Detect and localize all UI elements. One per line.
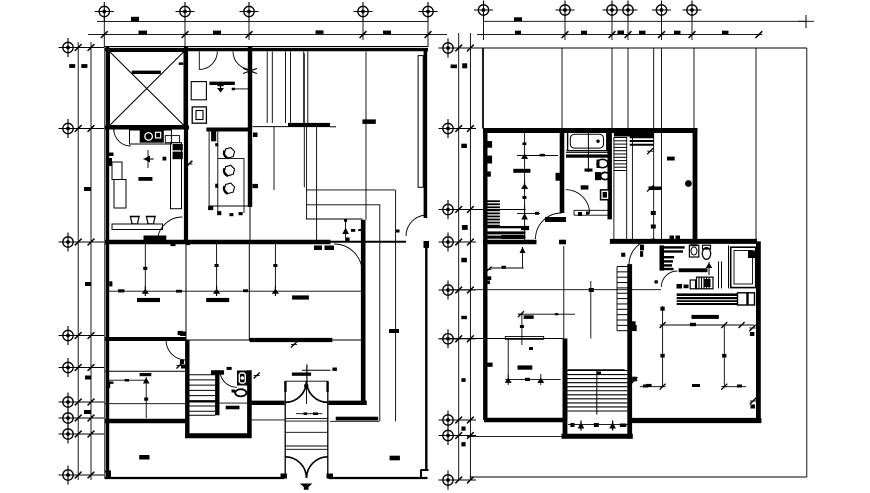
kitchen range white box	[156, 132, 161, 138]
hall line y403 left segment	[105, 403, 187, 405]
staircase dark tread line	[190, 400, 216, 402]
dimension text blobs left column	[69, 64, 91, 414]
living window column	[418, 56, 423, 188]
dining wall blob	[253, 184, 259, 188]
corridor dash	[667, 157, 675, 161]
left axis circle	[59, 326, 78, 345]
storage room label bar	[132, 71, 161, 74]
terrace grid verticals upper	[484, 48, 757, 241]
wall horizontal y129 left of bath door	[105, 126, 190, 130]
porch label bar above	[292, 373, 311, 376]
closet bottom thin line	[253, 126, 288, 128]
bath sink pedestal	[597, 159, 609, 168]
bath door arc right	[233, 52, 251, 70]
bath faucet cross	[217, 83, 224, 93]
bedroom2 dim cross center	[142, 286, 149, 296]
bath door leaf left	[198, 52, 200, 70]
bathtub drain dot	[596, 140, 599, 143]
wall mark east of bathroom2	[754, 252, 761, 259]
stairwell side lines	[614, 130, 633, 241]
axis tick verticals top right plan	[484, 16, 763, 41]
wall vertical x250	[248, 47, 252, 207]
left axis circle	[59, 409, 78, 428]
bath bottom double line	[574, 210, 611, 215]
bedroom1 dim marks on vertical	[523, 142, 527, 199]
bedroomSE dim vertical 1	[660, 306, 664, 387]
stair hall tick right	[632, 377, 701, 387]
axis ticks left column	[60, 44, 104, 478]
bedroom2 dim dash right	[176, 290, 182, 293]
porch dim cross above	[302, 365, 331, 382]
stair flight2 label marks	[630, 321, 635, 330]
dimension line middle-2	[469, 33, 471, 480]
bath small square and line	[232, 88, 250, 91]
dimension line middle-1	[458, 33, 460, 480]
middle axis circle	[439, 329, 458, 348]
left plan outer wall top thin line	[105, 46, 429, 48]
corridor wall x653.7	[653, 131, 655, 241]
refrigerator box 1	[112, 162, 122, 180]
main stairs top mark	[597, 372, 602, 376]
porch bottom corner foot right	[327, 474, 334, 479]
porch steps	[285, 419, 328, 450]
corridor dot	[685, 180, 692, 187]
hall label bar 3	[292, 295, 309, 299]
bathroom2 shower box	[731, 247, 756, 287]
grid vertical x563.8 middle	[563, 246, 565, 339]
bedroom SW east wall x565	[563, 339, 568, 421]
washing machine box	[192, 107, 206, 123]
bedroom1 dim cross y186	[521, 181, 528, 191]
hall dim vertical x591	[589, 281, 594, 339]
porch left jamb	[284, 381, 286, 478]
hall wall cross marks	[486, 267, 492, 285]
dining stool 2	[224, 165, 234, 175]
terrace vertical x482 left	[481, 48, 483, 129]
bathroom2 partition lines right of toilet	[719, 246, 729, 289]
kitchen door arc from storage	[114, 129, 131, 146]
bedroom1 wall mark east	[556, 173, 561, 181]
bedroom3 dim square on line	[215, 264, 219, 267]
left axis circle	[59, 119, 78, 138]
laundry dim horizontal	[109, 379, 146, 382]
porch bottom double door arc right	[307, 457, 328, 478]
porch bottom double door arc left	[285, 457, 306, 478]
living grid vertical x366	[365, 52, 367, 220]
bathroom2 counter bar	[679, 268, 708, 272]
bath niche wall band	[566, 154, 610, 157]
hall dim vertical x521.9	[520, 314, 524, 345]
bedroom1 label bar	[513, 169, 530, 173]
axis 2	[176, 2, 195, 21]
end tick of top dim line right plan	[798, 15, 814, 28]
middle axis circle	[439, 39, 458, 58]
bath dim cross bar	[585, 169, 593, 172]
wall x694 corridor east	[693, 128, 698, 239]
left plan bottom boundary wall	[105, 477, 428, 479]
staircase newel wall	[215, 370, 219, 415]
bathroom2 step closet vertical bar	[660, 245, 665, 270]
door swing mark x	[243, 68, 257, 73]
dining stool shadows	[224, 151, 228, 194]
bedroom1 wall marks west	[487, 141, 492, 177]
kitchen range dark block	[140, 130, 164, 143]
living thick bar center	[362, 119, 375, 124]
wall horizontal y340 thin middle	[186, 339, 250, 341]
bedroom1 top wall label	[501, 235, 523, 239]
dining partition line west	[208, 131, 210, 206]
left plan outer wall left	[105, 47, 108, 479]
kitchen counter right column	[171, 143, 182, 209]
right plan left wall thick	[483, 128, 487, 420]
hall partition x249 lower	[248, 243, 250, 340]
bathroom2 toilet	[702, 245, 710, 259]
hall dim horizontal y314	[518, 311, 575, 319]
entry marker triangle	[300, 484, 313, 490]
vanity hatched counter	[677, 293, 738, 305]
bathtub tile lines	[566, 151, 610, 153]
bedroom2 dim dash left	[118, 289, 124, 292]
dining stool 1	[224, 148, 234, 158]
bedroomSE wall marks west	[632, 325, 637, 381]
bedroom3 dim vertical	[216, 243, 218, 291]
bedroomSE label bar	[692, 315, 719, 319]
kitchen dim dash	[163, 157, 167, 161]
stair door arc y241	[629, 239, 655, 265]
axis tick verticals top left plan	[101, 17, 432, 47]
hall thin line y371	[105, 370, 187, 372]
bedroomSE dim horizontal y386	[640, 384, 746, 390]
wall horizontal y340 thin right	[332, 339, 363, 341]
left plan bottom-left corner mark	[105, 471, 112, 478]
bedroom3 tick below wall	[291, 342, 297, 348]
porch top double door arc right	[307, 381, 328, 402]
grid horizontal y290	[450, 289, 661, 291]
bedroomSE wall marks east	[749, 325, 756, 409]
closet wall mark	[253, 133, 258, 138]
stair landing bars top	[614, 133, 654, 137]
refrigerator box 2	[114, 180, 126, 209]
stair flight1 treads	[614, 138, 627, 171]
bathroom2 sink pedestal	[689, 245, 698, 257]
main stairs top line	[568, 369, 625, 371]
wall vertical x363 porch east	[361, 220, 366, 405]
corridor small square	[621, 253, 625, 257]
bedroom SE bottom wall	[628, 418, 761, 423]
corridor dim blobs	[651, 211, 656, 229]
living nested corner lines	[304, 53, 395, 421]
grid axis circles middle column	[439, 39, 458, 490]
kitchen counter top outline	[130, 130, 172, 144]
wall vertical x250 thin lower	[249, 207, 251, 243]
bedroom2 top marks	[170, 243, 190, 246]
middle axis circle	[439, 281, 458, 300]
room line y338.5	[450, 338, 564, 340]
dimension line top-2 left plan	[88, 34, 447, 36]
wall x758 bathroom2 east	[756, 241, 761, 420]
bedroom2 label bar	[137, 298, 160, 302]
left plan outer wall right lower	[425, 247, 427, 471]
west steps treads	[487, 200, 500, 226]
middle axis circle	[439, 233, 458, 252]
kitchen door threshold bar	[144, 236, 167, 241]
left axis circle	[59, 466, 78, 485]
kitchen label bar	[138, 177, 152, 181]
axis 4	[354, 2, 373, 21]
dining counter extension	[165, 136, 179, 143]
storage room box	[110, 52, 185, 126]
bath bidet	[600, 189, 610, 200]
thin line y420 left of porch	[252, 419, 286, 421]
bedroomSW dim horizontal	[505, 374, 561, 385]
dining partition ticks	[215, 143, 218, 188]
stair landing treads upper right	[630, 133, 654, 144]
wall horizontal y242 kitchen-hall thick	[105, 240, 331, 244]
kitchen pot 2	[147, 217, 156, 224]
wall vertical x186 lower thick	[185, 340, 189, 439]
laundry dim vertical	[143, 377, 150, 418]
bedroom2 wall mark	[109, 281, 112, 286]
corridor door arc to bathroom2	[661, 271, 677, 287]
bedroomSW wall mark	[487, 363, 493, 367]
washing machine inner square	[196, 111, 203, 120]
axis F	[683, 1, 702, 20]
living terrace bar	[336, 417, 379, 421]
porch dim dashes	[296, 412, 322, 415]
kitchen dim arrow	[144, 150, 154, 168]
dining bottom marks	[208, 206, 243, 216]
bathtub center grid line	[587, 130, 589, 172]
stair flight2 west line	[616, 267, 618, 331]
bedroom3 square right	[332, 368, 337, 371]
dimension text blobs top left plan	[131, 17, 391, 34]
left plan outer wall top thick	[105, 48, 429, 51]
bedroom1 east wall x562	[560, 128, 565, 213]
wall horizontal y403 left of porch	[252, 401, 285, 405]
wall horizontal y421 hall lower	[105, 419, 187, 423]
terrace line y421	[330, 420, 379, 422]
wall horizontal y435 stairs bottom	[185, 433, 252, 438]
main stairs arrow marks bottom	[570, 421, 626, 431]
dimension line left-1	[77, 42, 79, 480]
wall vertical x249.5 stair east wall	[247, 370, 252, 437]
dimension text blobs middle column	[451, 63, 468, 446]
kitchen pot lids	[130, 216, 156, 218]
bath east wall x610	[608, 128, 612, 219]
wc label bar	[226, 406, 240, 410]
middle axis circle	[439, 411, 458, 430]
hall small square	[655, 280, 658, 283]
storage room small square	[179, 62, 184, 65]
bath door arc left	[199, 52, 217, 70]
porch bottom corner foot left	[281, 474, 288, 479]
yard label bar right	[390, 456, 400, 461]
stair bottom wall right plan	[562, 434, 633, 439]
left plan outer wall right upper	[424, 49, 428, 218]
left axis circle	[59, 38, 78, 57]
main stairs dim line below	[568, 424, 630, 426]
axis E	[652, 1, 671, 20]
dimension line top-2 right plan	[477, 34, 761, 36]
bedroomSE dim horizontal y325	[660, 322, 754, 328]
bedroom1 bottom cross	[517, 205, 540, 220]
wall horizontal y242 medium continuation	[331, 241, 407, 243]
dining bottom line	[209, 205, 249, 207]
right plan top wall thick	[483, 128, 698, 133]
axis A	[474, 1, 493, 20]
wall vertical x186 upper	[184, 47, 188, 243]
axis B	[556, 1, 575, 20]
bath label blob	[581, 185, 589, 189]
wc bowl handle	[232, 390, 237, 396]
wall horizontal y340 hall top thick	[250, 338, 333, 342]
line y436 bottom left	[467, 435, 562, 437]
kitchen bottom counter	[112, 224, 163, 230]
stair flight2 treads	[617, 267, 629, 331]
dining counter east line	[243, 158, 245, 213]
bedroom1 bottom wall y242 west	[483, 240, 537, 245]
wall horizontal y129 right of bath door	[206, 128, 252, 132]
left axis circle	[59, 358, 78, 377]
porch top double door arc left	[285, 381, 306, 402]
wardrobe partition lines	[267, 52, 308, 124]
middle axis circle	[439, 200, 458, 219]
dimension line left-2	[90, 42, 92, 480]
bathroom2 washing machine	[690, 277, 713, 289]
bedroom SW bottom wall	[484, 418, 565, 423]
middle axis circle	[439, 471, 458, 490]
bedroomSW counter top	[505, 337, 543, 340]
main stairs west wall	[563, 370, 568, 439]
axis 3	[240, 2, 259, 21]
terrace outer boundary right plan	[468, 48, 807, 477]
storage room diagonal 2	[110, 52, 185, 126]
staircase treads left plan	[190, 375, 216, 412]
bathtub inner	[570, 134, 603, 148]
bedroom1 dim cross y155	[517, 154, 558, 159]
kitchen door arc to hall	[157, 217, 182, 242]
living dim arrow near porch wall	[342, 219, 361, 242]
axis 5	[419, 2, 438, 21]
corridor tick 1	[647, 148, 653, 154]
stair east newel wall	[627, 264, 632, 439]
wall vertical x186 middle thin	[185, 243, 187, 340]
hall dim dash mid	[243, 289, 248, 292]
left plan bottom-right corner mark	[421, 470, 429, 478]
hall dim vertical 3	[274, 243, 276, 291]
bottom room label bar	[139, 455, 149, 460]
bath counter black bar	[209, 82, 234, 85]
left axis circle	[59, 393, 78, 412]
kitchen wall tick right	[186, 161, 193, 168]
bathroom2 arrow mark	[706, 262, 712, 275]
axis ticks middle column	[440, 45, 526, 484]
bedroom1 door arc	[536, 213, 562, 239]
bedroom1 dim vertical	[524, 131, 526, 242]
closet bottom wall bar	[288, 123, 330, 127]
porch top line	[285, 380, 328, 382]
bedroom2 corner square	[178, 331, 183, 335]
bathroom2 step closet bars	[664, 246, 685, 270]
hall door arc northeast	[334, 244, 362, 272]
west steps platform bar	[487, 226, 529, 230]
axis 1	[95, 2, 114, 21]
bedroomSW small mark	[529, 347, 533, 350]
bedroom2 dim square on line	[143, 267, 147, 270]
dimension line top-1 left plan	[97, 21, 428, 23]
middle axis circle	[439, 426, 458, 445]
west steps thick tread bar	[487, 231, 525, 234]
laundry cabinet box	[191, 82, 206, 100]
bedroomSE dim vertical 2	[722, 325, 726, 387]
wall y241 bath-hall	[610, 239, 757, 244]
wc toilet bowl	[235, 389, 246, 396]
porch right jamb	[327, 381, 329, 478]
middle axis circle	[439, 119, 458, 138]
staircase bottom line	[190, 414, 216, 416]
left axis circle	[59, 425, 78, 444]
hall dim horizontal y291	[108, 290, 364, 292]
wall stub y372 over stairs newel	[211, 370, 224, 374]
laundry wall hook mark	[108, 382, 114, 388]
living dim mark near door	[396, 230, 400, 233]
closet bottom line right stub	[330, 126, 336, 128]
bath door arc bottom	[566, 190, 590, 214]
wc wall tick right	[254, 373, 260, 379]
bathtub outer	[568, 132, 607, 151]
bathroom west wall segment y219	[545, 217, 566, 222]
axis C	[603, 1, 622, 20]
dining stool 3	[224, 183, 234, 193]
main stairs center line	[596, 370, 598, 415]
corridor cross bar	[647, 185, 662, 192]
hall dim cross 3	[272, 286, 279, 296]
bath door marks	[578, 212, 589, 217]
living small blob right	[451, 65, 457, 69]
hall dim square on line 3	[273, 264, 277, 267]
sitting nook vertical x274	[273, 127, 275, 190]
hall cross mark near stairs	[177, 363, 183, 369]
grid axis circles left column	[59, 38, 78, 485]
wc toilet tank	[237, 371, 248, 386]
porch center door line	[306, 381, 308, 404]
kitchen range circle	[145, 133, 153, 141]
bath door leaf right	[250, 52, 252, 70]
axis D	[619, 1, 638, 20]
dining counter horizontal	[218, 157, 244, 159]
bedroomSW dim vertical	[507, 339, 509, 380]
bathroom2 door marks	[640, 236, 689, 289]
hall dim horizontal y268	[490, 266, 524, 269]
kitchen pot 1	[131, 217, 140, 224]
kitchen sink dark squares	[173, 144, 183, 159]
wc floor line	[220, 402, 248, 404]
bedroom3 label bar	[206, 298, 229, 302]
bedroom1 bottom wall y242 east stub	[559, 240, 566, 245]
bedroom2 door arc	[166, 340, 186, 360]
west steps bottom bars	[487, 236, 525, 239]
grid axis circles top of left plan	[95, 2, 438, 21]
storage room diagonal 1	[110, 52, 185, 126]
wall horizontal y403 right of porch	[329, 401, 367, 405]
left axis circle	[59, 233, 78, 252]
main stairs treads	[567, 371, 627, 412]
grid axis circles top of right plan	[474, 1, 702, 20]
dimension text below wall y242	[314, 246, 334, 251]
wc door arc	[220, 370, 237, 387]
bedroom2 dim vertical	[144, 243, 146, 291]
bath toilet	[595, 172, 609, 180]
